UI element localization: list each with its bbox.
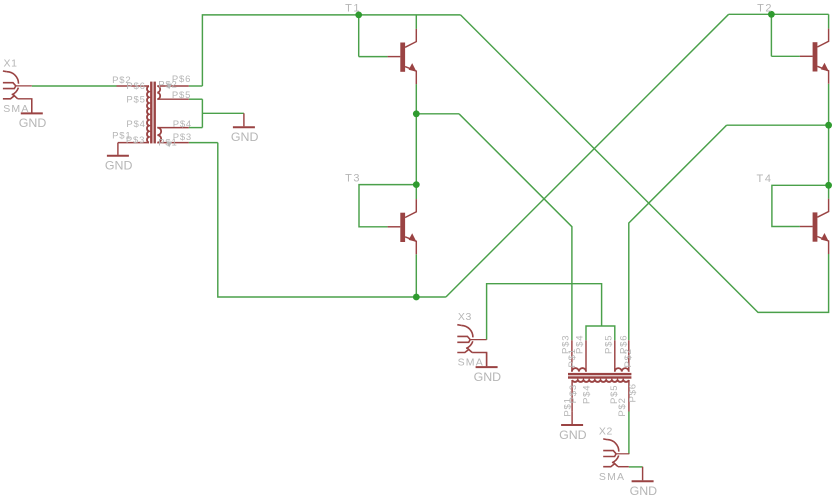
- svg-text:GND: GND: [105, 159, 133, 173]
- svg-text:T3: T3: [345, 173, 361, 185]
- svg-text:GND: GND: [630, 484, 658, 498]
- svg-text:P$5: P$5: [604, 335, 615, 354]
- svg-text:X2: X2: [599, 425, 613, 437]
- svg-text:P$2: P$2: [617, 397, 628, 416]
- svg-text:P$5: P$5: [126, 95, 145, 106]
- svg-text:P$4: P$4: [173, 119, 192, 130]
- svg-text:P$3: P$3: [126, 135, 145, 146]
- svg-text:GND: GND: [474, 370, 502, 384]
- svg-text:X3: X3: [458, 311, 472, 323]
- svg-text:P$2: P$2: [623, 348, 634, 367]
- svg-text:P$6: P$6: [126, 81, 145, 92]
- svg-text:P$6: P$6: [627, 383, 638, 402]
- svg-text:P$4: P$4: [126, 119, 145, 130]
- svg-text:GND: GND: [19, 116, 47, 130]
- svg-text:T4: T4: [757, 173, 773, 185]
- svg-text:P$4: P$4: [575, 335, 586, 354]
- svg-text:GND: GND: [231, 130, 259, 144]
- svg-text:P$3: P$3: [568, 384, 579, 403]
- svg-text:P$4: P$4: [582, 385, 593, 404]
- svg-text:SMA: SMA: [3, 103, 29, 115]
- svg-text:P$5: P$5: [172, 90, 191, 101]
- svg-text:T1: T1: [345, 3, 361, 15]
- svg-text:GND: GND: [559, 428, 587, 442]
- svg-text:T2: T2: [757, 2, 773, 14]
- svg-text:X1: X1: [4, 57, 18, 69]
- svg-text:SMA: SMA: [599, 471, 625, 483]
- svg-text:SMA: SMA: [458, 357, 484, 369]
